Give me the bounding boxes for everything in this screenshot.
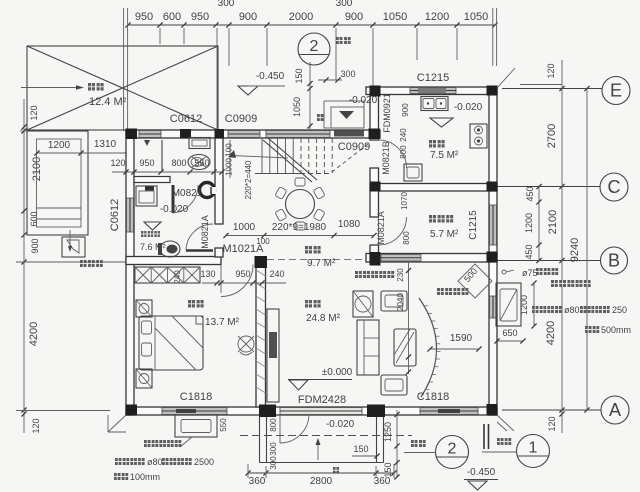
svg-text:13.7 M²: 13.7 M² (205, 317, 240, 328)
wall kitchen divider vertical (370, 95, 379, 262)
kitchen sink (421, 97, 448, 111)
bedroom labels (188, 300, 240, 328)
svg-text:800: 800 (402, 231, 411, 245)
kitchen label 7.5 M2 (429, 140, 459, 161)
svg-text:-0.020: -0.020 (326, 419, 355, 430)
top extension lines (124, 8, 497, 131)
cabinet AC label (355, 271, 394, 278)
axis bubble A (601, 396, 629, 424)
svg-text:220*9=1980: 220*9=1980 (272, 222, 327, 233)
dining beam dashed (267, 259, 366, 261)
left dim texts (28, 105, 43, 433)
corner apron NE (497, 68, 515, 88)
svg-text:900: 900 (345, 11, 363, 23)
svg-text:2100: 2100 (547, 210, 559, 234)
svg-text:100mm: 100mm (130, 472, 160, 482)
svg-text:C0909: C0909 (225, 113, 257, 125)
axis line E (502, 86, 602, 91)
svg-text:4200: 4200 (545, 321, 557, 345)
svg-text:1200: 1200 (425, 11, 449, 23)
bedroom door M1021 arc (221, 265, 253, 297)
window C0909 north (228, 131, 260, 138)
living labels 24.8 M2 (305, 300, 341, 324)
TV cabinet (267, 309, 279, 402)
svg-text:300: 300 (269, 456, 278, 470)
svg-text:150: 150 (294, 68, 304, 83)
svg-text:2700: 2700 (546, 124, 558, 148)
window C0612 north (139, 131, 161, 138)
svg-text:E: E (610, 81, 622, 101)
bedroom door dims (173, 269, 286, 286)
porch step label (333, 467, 339, 474)
kitchen level -0.020 (430, 102, 483, 127)
dangtai label bottom (411, 440, 426, 447)
svg-text:FDM0921: FDM0921 (382, 93, 392, 133)
cabinet AC unit (353, 291, 373, 317)
svg-text:ø80: ø80 (564, 305, 580, 315)
svg-text:2100: 2100 (31, 157, 43, 181)
AC hole note right line2 (585, 325, 631, 335)
coffee table (394, 329, 416, 366)
svg-text:100: 100 (225, 143, 234, 157)
porch dims 550 800 300 300 vertical (219, 418, 278, 470)
stairs up label (317, 114, 324, 121)
window C0612 west (127, 198, 134, 232)
dim 1200 AC right (519, 280, 537, 328)
svg-text:1050: 1050 (383, 11, 407, 23)
svg-text:240: 240 (269, 269, 284, 279)
svg-text:800: 800 (269, 418, 278, 432)
svg-text:1000: 1000 (225, 158, 234, 176)
wall C kitchen-storage (372, 184, 497, 192)
stairs dims 100 1000 (225, 140, 234, 178)
svg-text:950: 950 (135, 11, 153, 23)
svg-text:240: 240 (399, 128, 408, 142)
right dim lines (520, 60, 587, 433)
svg-text:-0.450: -0.450 (256, 71, 285, 82)
porch columns lines (260, 417, 384, 463)
wall B right (366, 254, 497, 263)
bedside table top (136, 300, 152, 317)
kitchen dims vertical (399, 103, 410, 210)
window C1215 east storage (490, 205, 497, 245)
axis bubble B (601, 247, 628, 274)
bathroom cistern cabinet (189, 138, 210, 149)
svg-text:B: B (608, 251, 620, 271)
annex inner pool (37, 139, 82, 227)
bedroom wardrobe (135, 267, 200, 283)
svg-text:300: 300 (336, 0, 353, 9)
window stair north band (266, 131, 330, 138)
wall bath-bed divider (126, 257, 221, 265)
bottom circles 2 and 1 (436, 436, 469, 469)
sewage well box (62, 230, 85, 257)
armchair bottom (381, 375, 407, 395)
svg-text:FDM2428: FDM2428 (298, 394, 346, 406)
level 0.000 (288, 367, 353, 390)
svg-text:4200: 4200 (28, 322, 40, 346)
svg-text:C0612: C0612 (170, 113, 202, 125)
svg-text:7.5 M²: 7.5 M² (430, 150, 459, 161)
svg-text:1590: 1590 (450, 333, 473, 344)
dining table (275, 178, 325, 230)
axis bubble E (602, 77, 630, 105)
svg-text:100: 100 (256, 237, 270, 246)
svg-text:1000: 1000 (233, 222, 256, 233)
svg-text:±0.000: ±0.000 (322, 367, 353, 378)
svg-text:M0821A: M0821A (376, 211, 386, 245)
svg-text:900: 900 (239, 11, 257, 23)
svg-text:2040: 2040 (396, 293, 405, 311)
svg-text:9240: 9240 (569, 238, 581, 262)
terrace outline (27, 46, 218, 130)
door FDM2428 south (280, 408, 362, 415)
wall kitchen north (366, 87, 497, 95)
axis line C (497, 184, 600, 189)
corner shelf diamond (458, 264, 492, 298)
bathroom shower head symbol (144, 140, 150, 146)
svg-text:500mm: 500mm (601, 325, 631, 335)
svg-text:C0909: C0909 (338, 141, 370, 153)
label C1215 storage vertical (468, 210, 479, 240)
svg-text:1070: 1070 (400, 192, 409, 210)
terrace cross (27, 46, 218, 130)
svg-text:300: 300 (340, 69, 355, 79)
AC labels bottom left (144, 440, 181, 447)
fan position label (437, 288, 468, 295)
bottom right level -0.450 (464, 467, 498, 490)
curved feature wall (419, 298, 441, 397)
bathroom door M0821A leaf and arc (186, 224, 213, 251)
svg-text:950: 950 (235, 269, 250, 279)
label C1215 kitchen (417, 72, 449, 84)
svg-text:550: 550 (219, 418, 228, 432)
AC outdoor unit bottom (175, 415, 217, 447)
dim 1590 (427, 333, 481, 352)
AC outdoor label right (551, 280, 591, 287)
back landing steps (324, 101, 364, 128)
svg-text:2800: 2800 (310, 476, 333, 487)
svg-text:C1818: C1818 (417, 391, 449, 403)
left extension lines (16, 131, 126, 411)
living dims (396, 262, 411, 375)
bathroom partition vertical thin (161, 140, 163, 172)
door M0821B arc (379, 140, 407, 168)
svg-text:120: 120 (29, 105, 39, 120)
svg-text:130: 130 (200, 269, 215, 279)
sofa (357, 320, 379, 375)
stairs treads (255, 138, 332, 174)
AC outdoor unit right (496, 283, 521, 326)
porch arrow (316, 438, 321, 460)
dangtai label top (336, 37, 351, 44)
armchair top (381, 291, 407, 311)
svg-text:950: 950 (139, 158, 154, 168)
wall bathroom partition (134, 177, 170, 183)
window C1215 kitchen north (410, 88, 456, 94)
annex dim line 1200/1310 (34, 139, 130, 156)
stairs up arrow (228, 150, 288, 158)
stairs break line (263, 138, 317, 182)
wall north main (126, 130, 380, 138)
annex outer (27, 131, 88, 235)
stairs dim 220*2=440 (244, 160, 253, 199)
bathroom shower (136, 186, 157, 206)
labels C0612 C0909 above north wall (170, 113, 257, 125)
svg-text:300: 300 (218, 0, 235, 9)
top dimension line (125, 22, 497, 27)
svg-text:360: 360 (249, 476, 266, 487)
axis bubble C (600, 173, 628, 201)
bathroom toilet bottom (158, 241, 180, 257)
bathroom door M0821 leaf and arc (172, 185, 199, 213)
bottom extension lines (248, 464, 394, 478)
left dim line (21, 99, 26, 433)
label C0909 interior (338, 141, 370, 153)
cut 300 labels top edge (218, 0, 353, 9)
svg-text:24.8 M²: 24.8 M² (306, 313, 341, 324)
label M1021A (223, 237, 271, 255)
window C1818 south bedroom (162, 408, 227, 415)
columns (black) (126, 86, 498, 418)
window east living (490, 296, 497, 318)
level -0.020 back landing (339, 95, 378, 119)
svg-text:950: 950 (191, 11, 209, 23)
dining labels (305, 246, 336, 269)
axis line A (502, 407, 601, 412)
svg-text:900: 900 (401, 103, 410, 117)
terrace label arrow (21, 85, 84, 89)
svg-text:-0.020: -0.020 (349, 95, 378, 106)
rain pipe label (502, 268, 558, 278)
bathroom washbasin (200, 183, 217, 198)
svg-text:1200: 1200 (519, 295, 529, 315)
window band in B wall (381, 255, 421, 262)
svg-text:2: 2 (310, 38, 319, 55)
svg-text:-0.020: -0.020 (454, 102, 483, 113)
wall south (126, 407, 497, 415)
door labels M0821B FDM0921 vertical (381, 93, 392, 175)
axis line B (497, 258, 601, 263)
svg-text:ø75: ø75 (522, 268, 538, 278)
svg-text:2000: 2000 (289, 11, 313, 23)
svg-text:300: 300 (269, 442, 278, 456)
svg-text:120: 120 (31, 418, 41, 433)
label M0821A vertical bathroom (200, 215, 210, 249)
kitchen stove (470, 124, 487, 148)
dining dim line (223, 222, 376, 238)
svg-text:7.6 M²: 7.6 M² (140, 242, 166, 252)
label C1818 bedroom (180, 391, 212, 403)
door FDM2428 swing (280, 415, 309, 444)
svg-text:600: 600 (163, 11, 181, 23)
svg-text:550: 550 (194, 158, 209, 168)
svg-text:650: 650 (502, 328, 517, 338)
wall east (489, 87, 497, 415)
svg-text:2: 2 (448, 441, 457, 458)
svg-text:1310: 1310 (94, 139, 117, 150)
back porch dim 300 (318, 69, 356, 83)
svg-text:C1215: C1215 (417, 72, 449, 84)
svg-text:C1215: C1215 (468, 210, 479, 240)
drainage marks SE (484, 424, 489, 449)
bathroom labels (160, 188, 203, 215)
sanshui label bottom right (497, 438, 511, 445)
bedside table bottom (136, 369, 152, 388)
door M0821A arc (divider wall, into storage) (379, 217, 407, 245)
svg-text:1250: 1250 (383, 422, 393, 442)
svg-text:120: 120 (546, 63, 556, 78)
label C1818 living south + FDM2428 handled; C1818 right (417, 391, 449, 403)
sewage well label wushuijing (80, 260, 103, 267)
svg-text:120: 120 (110, 158, 125, 168)
bed (139, 316, 203, 370)
svg-text:C0612: C0612 (109, 199, 121, 231)
svg-text:120: 120 (547, 416, 557, 431)
svg-text:-0.450: -0.450 (467, 467, 496, 478)
bathroom toilet top (188, 155, 210, 170)
corner apron SW (108, 415, 126, 432)
svg-text:M0821B: M0821B (381, 141, 391, 175)
axis leader lines bottom circles (404, 451, 517, 454)
svg-text:M0821A: M0821A (200, 215, 210, 249)
svg-text:12.4 M²: 12.4 M² (89, 96, 127, 108)
porch level -0.020 (326, 419, 355, 430)
svg-text:240: 240 (173, 270, 182, 284)
svg-text:M0821: M0821 (172, 188, 203, 199)
svg-text:C: C (608, 177, 621, 197)
svg-text:C1818: C1818 (180, 391, 212, 403)
svg-text:1050: 1050 (292, 97, 302, 117)
label FDM2428 (298, 394, 346, 406)
wall west (126, 130, 134, 415)
svg-text:230: 230 (396, 268, 405, 282)
svg-text:800: 800 (399, 145, 408, 159)
svg-text:A: A (609, 400, 621, 420)
level -0.450 back (238, 71, 285, 95)
axis bubble 2 top (298, 33, 330, 65)
svg-text:220*2=440: 220*2=440 (244, 160, 253, 199)
svg-text:450: 450 (525, 186, 535, 201)
wall bed-living divider (256, 258, 266, 407)
dim 650 right (494, 328, 525, 344)
porch dim 150 (352, 444, 380, 459)
top dimension numbers (135, 11, 488, 23)
storage label 5.7 M2 (429, 215, 459, 240)
bathroom top dims (110, 158, 224, 175)
window C1818 south living (420, 408, 478, 415)
corner apron SE (497, 415, 514, 431)
svg-text:1050: 1050 (464, 11, 488, 23)
svg-text:250: 250 (612, 305, 627, 315)
door FDM0921 threshold (334, 131, 364, 137)
AC hole note right line1 (532, 305, 627, 315)
bathroom level mark (144, 222, 161, 230)
svg-text:-0.020: -0.020 (160, 204, 189, 215)
stairs void dashed diagonal (330, 144, 368, 174)
svg-text:1200: 1200 (524, 213, 534, 233)
svg-text:800: 800 (171, 158, 186, 168)
svg-text:1200: 1200 (48, 140, 71, 151)
svg-text:1080: 1080 (338, 219, 361, 230)
svg-text:ø80: ø80 (147, 457, 163, 467)
svg-text:150: 150 (353, 444, 368, 454)
terrace label lutai 12.4 M2 (88, 83, 127, 108)
svg-text:1: 1 (529, 440, 538, 457)
bottom dim line (245, 470, 396, 487)
back porch vertical dims 150 1050 (292, 62, 313, 131)
wall bathroom east (215, 138, 223, 257)
svg-text:2500: 2500 (194, 457, 214, 467)
porch dashed walk line (240, 435, 412, 437)
svg-text:450: 450 (524, 244, 534, 259)
label M0821A vertical (kitchen side) (376, 211, 411, 245)
right dim texts (524, 63, 581, 431)
svg-text:900: 900 (30, 238, 40, 253)
bedroom plant (238, 336, 254, 355)
label C0612 west vertical (109, 199, 121, 231)
storage dim 1080 (338, 219, 361, 230)
kitchen fridge (404, 164, 422, 181)
porch dims 1250/150 vertical (383, 410, 400, 480)
svg-text:5.7 M²: 5.7 M² (430, 229, 459, 240)
